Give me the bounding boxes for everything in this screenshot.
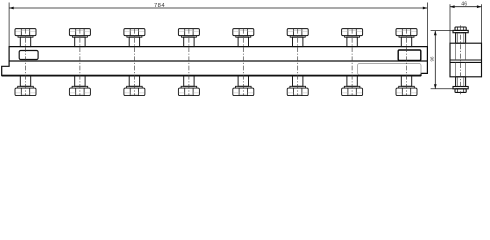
svg-text:46: 46 (461, 2, 467, 8)
svg-text:784: 784 (154, 3, 165, 9)
svg-text:96: 96 (429, 56, 434, 62)
